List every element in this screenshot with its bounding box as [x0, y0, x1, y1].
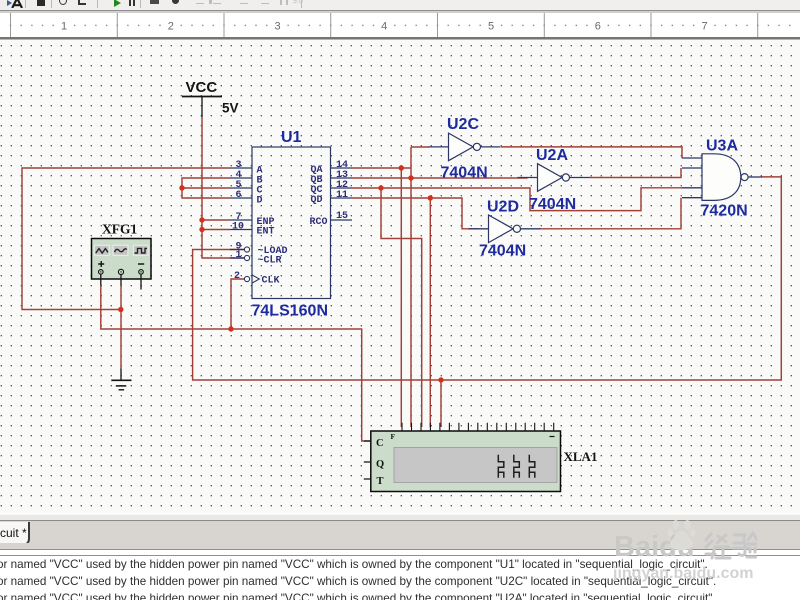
svg-text:2: 2	[234, 271, 240, 282]
svg-text:7420N: 7420N	[701, 203, 748, 220]
svg-text:F: F	[391, 432, 396, 441]
svg-text:10: 10	[232, 222, 244, 233]
svg-text:U2D: U2D	[487, 199, 519, 216]
svg-text:1: 1	[235, 250, 241, 261]
svg-text:2: 2	[168, 21, 174, 33]
svg-text:XLA1: XLA1	[564, 449, 598, 464]
svg-text:Q: Q	[376, 459, 384, 470]
svg-text:74LS160N: 74LS160N	[252, 303, 329, 320]
svg-text:3: 3	[274, 21, 280, 33]
svg-text:U2A: U2A	[536, 147, 568, 164]
svg-text:6: 6	[595, 21, 601, 33]
svg-text:7404N: 7404N	[479, 243, 526, 260]
svg-text:CLK: CLK	[262, 276, 280, 287]
svg-text:~CLR: ~CLR	[258, 255, 282, 266]
svg-text:C: C	[376, 438, 384, 449]
svg-text:XFG1: XFG1	[102, 222, 137, 237]
svg-text:ENT: ENT	[257, 227, 275, 238]
svg-text:11: 11	[336, 190, 348, 201]
svg-text:7404N: 7404N	[529, 196, 576, 213]
svg-text:5V: 5V	[222, 101, 239, 116]
svg-text:7404N: 7404N	[441, 165, 488, 182]
svg-text:VCC: VCC	[186, 79, 218, 96]
svg-text:1: 1	[61, 21, 67, 33]
svg-text:T: T	[377, 476, 384, 487]
svg-text:7: 7	[701, 21, 707, 33]
svg-text:15: 15	[336, 211, 348, 222]
svg-text:5: 5	[488, 21, 494, 33]
svg-text:U2C: U2C	[447, 116, 479, 133]
svg-text:D: D	[257, 195, 263, 206]
svg-text:U3A: U3A	[706, 138, 738, 155]
svg-text:4: 4	[381, 21, 387, 33]
svg-text:QD: QD	[311, 195, 323, 206]
svg-text:RCO: RCO	[310, 217, 328, 228]
svg-text:U1: U1	[281, 129, 302, 146]
svg-text:6: 6	[235, 190, 241, 201]
